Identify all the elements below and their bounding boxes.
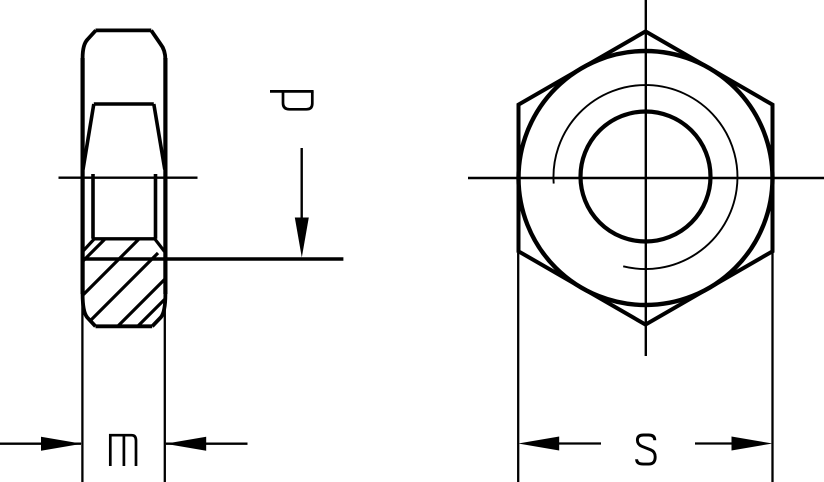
side view: top-right chamfer arc — [151, 30, 165, 60]
dimension m: extension line left — [81, 290, 83, 482]
label p (rotated) — [270, 91, 314, 109]
dimension p: arrowhead — [295, 218, 309, 258]
top view: vertical centerline — [645, 0, 647, 356]
side view: left countersink slant — [83, 239, 94, 251]
dimension s: extension line right — [771, 253, 773, 482]
side view: bottom-right arc — [152, 294, 165, 326]
side view: top flat edge — [96, 28, 152, 32]
side view: chamfer base line — [94, 102, 154, 106]
label m — [110, 435, 136, 466]
hatch line 1 — [74, 228, 116, 270]
side view: top-left chamfer arc — [83, 30, 96, 58]
top view: bore circle — [581, 112, 711, 242]
label s — [637, 435, 656, 464]
top view: hexagon outline — [519, 31, 773, 324]
hatch line 3 — [84, 253, 158, 327]
dimension m: extension line right — [164, 290, 166, 482]
side view: bore right edge — [154, 174, 158, 239]
dimension p: arrow shaft — [301, 148, 303, 226]
dimension s: right arrowhead — [732, 437, 773, 451]
section hatching — [74, 228, 170, 334]
side view: bore left edge — [91, 174, 95, 239]
side view: bore bottom line — [92, 237, 157, 240]
top view: chamfer circle (inscribed) — [519, 51, 773, 305]
dimension s: extension line left — [517, 253, 519, 482]
side view: left face slant — [83, 104, 94, 170]
side view: bottom-left arc — [83, 294, 96, 326]
dimension p: leader line — [82, 257, 343, 260]
top view: thread circle (3/4 arc) — [553, 85, 737, 269]
dimension m: right arrowhead — [165, 437, 206, 451]
dimension m: left tail line — [0, 443, 81, 445]
side view: outer right edge — [163, 58, 167, 294]
hatch line 2 — [80, 232, 146, 298]
side view: bottom flat edge — [96, 324, 153, 328]
dimension s: right tail line — [695, 442, 733, 444]
dimension m: right tail line — [166, 443, 248, 445]
hatch line 4 — [110, 274, 170, 334]
dimension m: left arrowhead — [41, 437, 82, 451]
side view: outer left edge — [80, 58, 84, 294]
side view: horizontal centerline — [59, 177, 198, 179]
dimension s: left tail line — [558, 442, 601, 444]
top view: horizontal centerline — [468, 177, 824, 179]
side view: right countersink slant — [155, 239, 165, 251]
dimension s: left arrowhead — [518, 437, 559, 451]
side view: right face slant — [154, 104, 165, 170]
hatch line 5 — [130, 294, 170, 334]
